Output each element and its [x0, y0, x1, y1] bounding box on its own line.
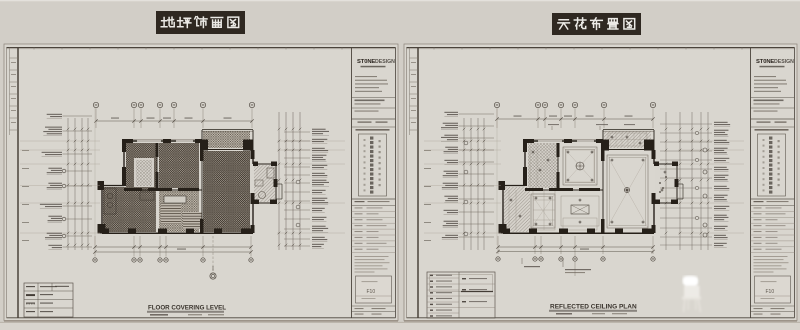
svg-text:F10: F10: [367, 289, 376, 295]
svg-text:DESIGN: DESIGN: [375, 59, 395, 65]
svg-text:DESIGN: DESIGN: [774, 59, 794, 65]
svg-text:REFLECTED CEILING PLAN: REFLECTED CEILING PLAN: [550, 304, 637, 311]
svg-text:ST0NE: ST0NE: [756, 59, 774, 65]
svg-text:ST0NE: ST0NE: [357, 59, 375, 65]
svg-text:FLOOR COVERING LEVEL: FLOOR COVERING LEVEL: [148, 305, 226, 312]
svg-text:F10: F10: [766, 289, 775, 295]
